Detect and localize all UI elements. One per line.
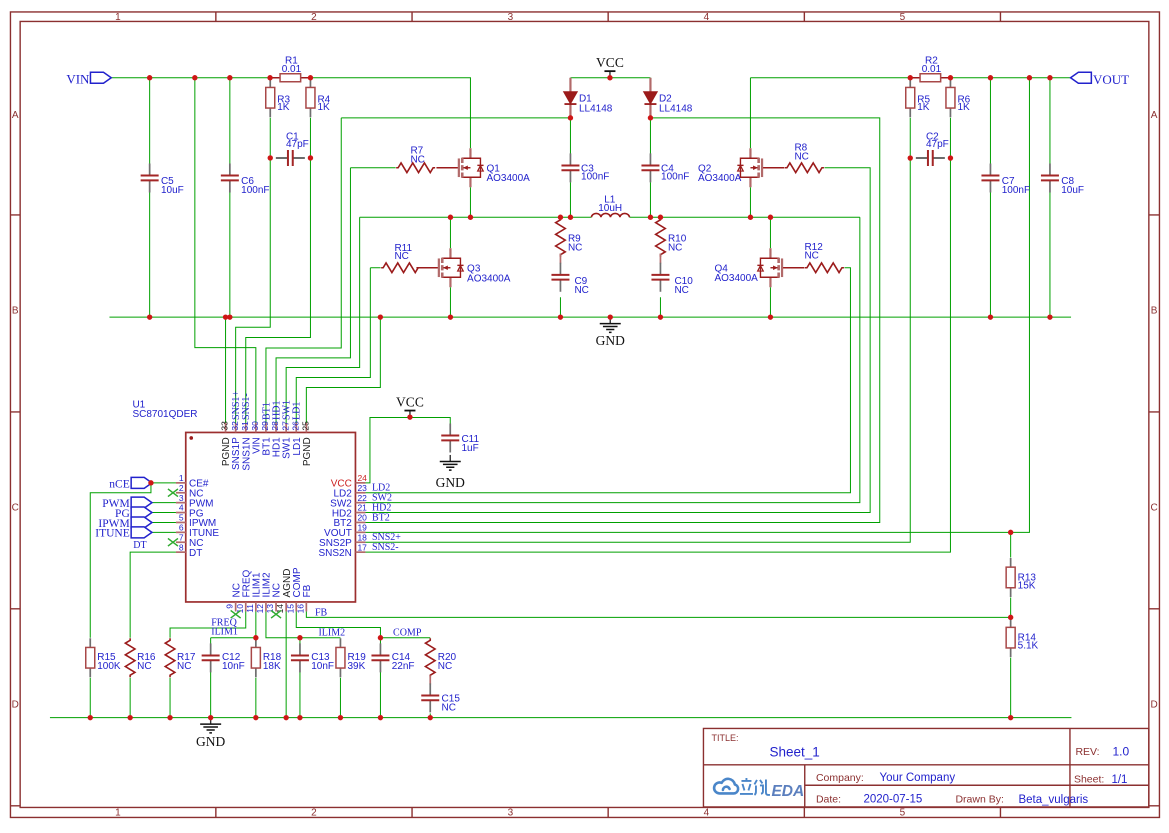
svg-text:nCE: nCE bbox=[109, 478, 129, 490]
svg-text:SC8701QDER: SC8701QDER bbox=[132, 409, 197, 420]
pin 22 SW2 bbox=[355, 502, 365, 504]
svg-text:REV:: REV: bbox=[1075, 746, 1099, 758]
svg-text:29: 29 bbox=[260, 421, 270, 431]
pin 1 CE# bbox=[176, 482, 186, 484]
transistor Q1 bbox=[436, 148, 483, 187]
junction bottom GND bus bbox=[208, 715, 213, 720]
capacitor C13 bbox=[291, 643, 309, 672]
capacitor C6 bbox=[221, 163, 239, 192]
transistor Q2 bbox=[737, 148, 784, 187]
pin 13 NC bbox=[275, 602, 277, 612]
pin 4 PG bbox=[176, 512, 186, 514]
resistor R15 bbox=[86, 638, 95, 677]
junction bottom GND bus bbox=[378, 715, 383, 720]
svg-text:GND: GND bbox=[436, 475, 465, 490]
svg-text:B: B bbox=[12, 305, 19, 316]
svg-text:10nF: 10nF bbox=[222, 661, 245, 672]
svg-text:1K: 1K bbox=[317, 102, 330, 113]
svg-text:1: 1 bbox=[179, 473, 184, 483]
title block bbox=[703, 728, 1148, 807]
svg-text:18K: 18K bbox=[263, 661, 281, 672]
svg-text:NC: NC bbox=[674, 285, 688, 296]
svg-text:EDA: EDA bbox=[771, 783, 804, 800]
svg-text:0.01: 0.01 bbox=[922, 64, 942, 75]
pin 23 LD2 bbox=[355, 492, 365, 494]
pin 10 FREQ bbox=[245, 602, 247, 612]
svg-text:12: 12 bbox=[255, 604, 265, 614]
junction VCC top bbox=[607, 75, 612, 80]
junction C1 bbox=[308, 155, 313, 160]
ground under C11 bbox=[440, 455, 461, 470]
svg-text:100nF: 100nF bbox=[581, 172, 609, 183]
junction VIN rail bbox=[308, 75, 313, 80]
svg-text:5: 5 bbox=[179, 513, 184, 523]
svg-text:4: 4 bbox=[704, 807, 710, 818]
junction middle GND bus bbox=[227, 314, 232, 319]
svg-text:1K: 1K bbox=[957, 102, 970, 113]
svg-text:GND: GND bbox=[196, 734, 225, 749]
capacitor C10 bbox=[651, 263, 669, 292]
svg-text:1.0: 1.0 bbox=[1112, 744, 1129, 758]
capacitor C15 bbox=[421, 683, 439, 712]
svg-text:5: 5 bbox=[900, 12, 906, 23]
junction D1 BT1 bbox=[568, 115, 573, 120]
resistor R20 bbox=[425, 638, 435, 677]
pin 17 SNS2N bbox=[355, 551, 365, 553]
svg-text:A: A bbox=[1151, 110, 1158, 121]
IC U1 SC8701QDER body bbox=[186, 432, 356, 602]
junction VIN rail bbox=[267, 75, 272, 80]
svg-text:20: 20 bbox=[357, 513, 367, 523]
svg-text:NC: NC bbox=[794, 152, 808, 163]
junction middle GND bus bbox=[768, 314, 773, 319]
capacitor C9 bbox=[551, 263, 569, 292]
pin 27 SW1 bbox=[285, 423, 287, 433]
svg-text:2: 2 bbox=[311, 807, 317, 818]
capacitor C4 bbox=[641, 153, 659, 182]
pin 21 HD2 bbox=[355, 512, 365, 514]
svg-text:3: 3 bbox=[179, 493, 184, 503]
junction VIN rail bbox=[147, 75, 152, 80]
junction bottom GND bus bbox=[1008, 715, 1013, 720]
capacitor C11 bbox=[441, 423, 459, 452]
junction SW node bbox=[468, 215, 473, 220]
junction SW node bbox=[448, 215, 453, 220]
junction C2 bbox=[908, 155, 913, 160]
resistor R10 bbox=[656, 218, 666, 257]
svg-text:10uF: 10uF bbox=[161, 185, 184, 196]
svg-text:5.1K: 5.1K bbox=[1018, 640, 1039, 651]
junction VOUT rail bbox=[988, 75, 993, 80]
svg-text:C: C bbox=[12, 502, 19, 513]
svg-text:DT: DT bbox=[133, 540, 146, 551]
svg-text:32: 32 bbox=[230, 421, 240, 431]
svg-text:SNS1-: SNS1- bbox=[241, 393, 252, 420]
capacitor C8 bbox=[1041, 163, 1059, 192]
svg-text:1K: 1K bbox=[917, 102, 930, 113]
junction middle GND bus bbox=[378, 314, 383, 319]
svg-text:VCC: VCC bbox=[396, 395, 424, 410]
pin 26 LD1 bbox=[295, 423, 297, 433]
capacitor C12 bbox=[202, 643, 220, 672]
pin 5 IPWM bbox=[176, 521, 186, 523]
svg-text:4: 4 bbox=[704, 12, 710, 23]
svg-text:30: 30 bbox=[250, 421, 260, 431]
resistor R12 bbox=[805, 263, 844, 273]
svg-text:NC: NC bbox=[394, 251, 408, 262]
pin 3 PWM bbox=[176, 502, 186, 504]
resistor R8 bbox=[785, 163, 824, 173]
svg-text:15: 15 bbox=[285, 604, 295, 614]
junction feedback divider bbox=[1008, 530, 1013, 535]
svg-text:ITUNE: ITUNE bbox=[95, 528, 130, 540]
port VIN bbox=[90, 72, 111, 83]
svg-text:17: 17 bbox=[357, 542, 367, 552]
svg-text:4: 4 bbox=[179, 503, 184, 513]
pin 11 ILIM1 bbox=[255, 602, 257, 612]
svg-text:C: C bbox=[1151, 502, 1158, 513]
svg-text:Beta_vulgaris: Beta_vulgaris bbox=[1018, 794, 1088, 806]
svg-text:VIN: VIN bbox=[66, 71, 90, 86]
svg-text:33: 33 bbox=[220, 421, 230, 431]
junction SW node bbox=[658, 215, 663, 220]
resistor R16 bbox=[125, 638, 135, 677]
resistor R13 bbox=[1006, 558, 1015, 597]
junction feedback divider bbox=[1008, 615, 1013, 620]
pin 29 BT1 bbox=[265, 423, 267, 433]
pin 8 DT bbox=[176, 551, 186, 553]
port PG bbox=[131, 507, 152, 518]
lead R20 to C15 bbox=[429, 675, 431, 684]
resistor R11 bbox=[381, 263, 420, 273]
junction C1 bbox=[268, 155, 273, 160]
svg-text:27: 27 bbox=[280, 421, 290, 431]
capacitor C14 bbox=[371, 643, 389, 672]
svg-text:Sheet_1: Sheet_1 bbox=[769, 744, 819, 759]
junction SW node bbox=[648, 215, 653, 220]
pin 30 VIN bbox=[255, 423, 257, 433]
junction middle GND bus bbox=[448, 314, 453, 319]
svg-text:B: B bbox=[1151, 305, 1158, 316]
svg-text:23: 23 bbox=[357, 483, 367, 493]
svg-text:GND: GND bbox=[596, 333, 625, 348]
svg-text:ILIM1: ILIM1 bbox=[211, 627, 238, 638]
svg-text:0.01: 0.01 bbox=[282, 64, 302, 75]
svg-text:Sheet:: Sheet: bbox=[1074, 773, 1104, 785]
junction bottom GND bus bbox=[88, 715, 93, 720]
svg-text:19: 19 bbox=[357, 523, 367, 533]
svg-text:AO3400A: AO3400A bbox=[698, 173, 742, 184]
svg-text:SNS2-: SNS2- bbox=[372, 542, 399, 553]
port IPWM bbox=[131, 517, 152, 528]
svg-text:AO3400A: AO3400A bbox=[486, 173, 530, 184]
no-connect pin2 bbox=[168, 489, 178, 497]
pin 28 HD1 bbox=[275, 423, 277, 433]
capacitor C3 bbox=[561, 153, 579, 182]
pin 2 NC bbox=[176, 492, 186, 494]
svg-text:2: 2 bbox=[179, 483, 184, 493]
svg-text:21: 21 bbox=[357, 503, 367, 513]
svg-text:COMP: COMP bbox=[393, 627, 422, 638]
port nCE bbox=[131, 477, 152, 488]
junction bottom GND bus bbox=[127, 715, 132, 720]
power VCC top bbox=[604, 71, 615, 78]
svg-text:3: 3 bbox=[508, 12, 514, 23]
svg-text:5: 5 bbox=[900, 807, 906, 818]
svg-text:1: 1 bbox=[115, 12, 121, 23]
svg-text:FB: FB bbox=[302, 584, 313, 597]
svg-text:100nF: 100nF bbox=[661, 172, 689, 183]
junction bottom GND bus bbox=[428, 715, 433, 720]
svg-text:26: 26 bbox=[290, 421, 300, 431]
svg-text:ILIM2: ILIM2 bbox=[318, 628, 345, 639]
svg-text:LD1: LD1 bbox=[292, 402, 303, 420]
svg-text:10nF: 10nF bbox=[311, 661, 334, 672]
svg-text:Date:: Date: bbox=[816, 793, 841, 805]
svg-text:NC: NC bbox=[574, 285, 588, 296]
svg-text:NC: NC bbox=[568, 243, 582, 254]
no-connect pin9 bbox=[231, 610, 241, 618]
svg-text:BT2: BT2 bbox=[372, 512, 390, 523]
resistor R14 bbox=[1006, 618, 1015, 657]
junction bottom GND bus bbox=[297, 715, 302, 720]
svg-text:1: 1 bbox=[115, 807, 121, 818]
svg-text:TITLE:: TITLE: bbox=[711, 733, 738, 743]
svg-text:Your Company: Your Company bbox=[879, 772, 955, 784]
pin 19 VOUT bbox=[355, 531, 365, 533]
port ITUNE bbox=[131, 527, 152, 538]
svg-text:22nF: 22nF bbox=[392, 661, 415, 672]
junction bottom GND bus bbox=[338, 715, 343, 720]
svg-text:9: 9 bbox=[225, 604, 235, 609]
pin 12 ILIM2 bbox=[265, 602, 267, 612]
junction VIN rail bbox=[192, 75, 197, 80]
junction VCC C11 bbox=[407, 414, 412, 419]
EasyEDA logo bbox=[714, 779, 738, 794]
no-connect pin7 bbox=[168, 538, 178, 546]
svg-text:FB: FB bbox=[315, 607, 328, 618]
svg-text:7: 7 bbox=[179, 532, 184, 542]
resistor R5 bbox=[906, 78, 915, 117]
pin 16 FB bbox=[305, 602, 307, 612]
pin 25 PGND bbox=[305, 423, 307, 433]
capacitor C2 bbox=[916, 150, 945, 166]
svg-text:PGND: PGND bbox=[302, 437, 313, 466]
svg-text:D: D bbox=[1151, 699, 1158, 710]
svg-text:AO3400A: AO3400A bbox=[467, 273, 511, 284]
pin 32 SNS1P bbox=[235, 423, 237, 433]
svg-text:47pF: 47pF bbox=[286, 139, 309, 150]
svg-text:8: 8 bbox=[179, 542, 184, 552]
svg-text:11: 11 bbox=[245, 604, 255, 613]
diode D1 bbox=[564, 78, 578, 118]
lead R9 to C9 bbox=[559, 253, 561, 263]
svg-text:31: 31 bbox=[240, 421, 250, 431]
junction bottom GND bus bbox=[253, 715, 258, 720]
junction bottom GND bus bbox=[283, 715, 288, 720]
diode D2 bbox=[644, 78, 658, 118]
svg-text:47pF: 47pF bbox=[926, 139, 949, 150]
junction SW node bbox=[558, 215, 563, 220]
pin 6 ITUNE bbox=[176, 531, 186, 533]
junction middle GND bus bbox=[658, 314, 663, 319]
junction ILIM/COMP bbox=[378, 635, 383, 640]
capacitor C7 bbox=[981, 163, 999, 192]
inductor L1 bbox=[591, 213, 629, 217]
pin 33 PGND bbox=[225, 423, 227, 433]
svg-text:NC: NC bbox=[438, 661, 452, 672]
resistor R9 bbox=[556, 218, 566, 257]
junction VOUT rail bbox=[1027, 75, 1032, 80]
svg-text:15K: 15K bbox=[1018, 580, 1036, 591]
resistor R2 bbox=[911, 74, 950, 82]
junction bottom GND bus bbox=[167, 715, 172, 720]
pin 24 VCC bbox=[355, 482, 365, 484]
resistor R1 bbox=[271, 74, 310, 82]
svg-text:22: 22 bbox=[357, 493, 367, 503]
svg-text:16: 16 bbox=[295, 604, 305, 614]
pin 20 BT2 bbox=[355, 521, 365, 523]
svg-text:LL4148: LL4148 bbox=[659, 104, 693, 115]
svg-text:VOUT: VOUT bbox=[1093, 72, 1129, 87]
junction SW node bbox=[768, 215, 773, 220]
svg-text:39K: 39K bbox=[347, 661, 365, 672]
capacitor C5 bbox=[141, 163, 159, 192]
junction ILIM/COMP bbox=[297, 635, 302, 640]
svg-text:100nF: 100nF bbox=[1002, 185, 1030, 196]
pin 14 AGND bbox=[285, 602, 287, 612]
junction SW node bbox=[568, 215, 573, 220]
junction ILIM/COMP bbox=[253, 635, 258, 640]
svg-text:NC: NC bbox=[410, 155, 424, 166]
svg-text:18: 18 bbox=[357, 532, 367, 542]
transistor Q3 bbox=[416, 248, 463, 287]
svg-text:Company:: Company: bbox=[816, 772, 864, 784]
svg-text:24: 24 bbox=[357, 473, 367, 483]
svg-text:1K: 1K bbox=[277, 102, 290, 113]
svg-text:3: 3 bbox=[508, 807, 514, 818]
port PWM bbox=[131, 497, 152, 508]
svg-text:LL4148: LL4148 bbox=[579, 104, 613, 115]
lead R10 to C10 bbox=[659, 253, 661, 263]
svg-text:100K: 100K bbox=[97, 661, 121, 672]
capacitor C1 bbox=[276, 150, 305, 166]
svg-text:28: 28 bbox=[270, 421, 280, 431]
pin 7 NC bbox=[176, 541, 186, 543]
pin 18 SNS2P bbox=[355, 541, 365, 543]
pin 9 NC bbox=[235, 602, 237, 612]
resistor R6 bbox=[946, 78, 955, 117]
power VCC C11 bbox=[404, 411, 415, 418]
svg-text:2020-07-15: 2020-07-15 bbox=[863, 793, 922, 805]
svg-text:10uH: 10uH bbox=[598, 203, 622, 214]
svg-text:25: 25 bbox=[301, 421, 311, 431]
svg-text:VCC: VCC bbox=[596, 55, 624, 70]
resistor R17 bbox=[165, 638, 175, 677]
junction VOUT rail bbox=[1047, 75, 1052, 80]
svg-text:NC: NC bbox=[668, 243, 682, 254]
svg-text:6: 6 bbox=[179, 523, 184, 533]
svg-text:1uF: 1uF bbox=[461, 443, 478, 454]
svg-text:Drawn By:: Drawn By: bbox=[955, 793, 1003, 805]
no-connect pin13 bbox=[271, 610, 281, 618]
resistor R18 bbox=[251, 638, 260, 677]
svg-text:NC: NC bbox=[442, 702, 456, 713]
junction nCE bbox=[148, 480, 153, 485]
junction middle GND bus bbox=[558, 314, 563, 319]
svg-text:SNS2N: SNS2N bbox=[318, 548, 351, 559]
junction C2 bbox=[948, 155, 953, 160]
resistor R4 bbox=[306, 78, 315, 117]
junction VIN rail bbox=[227, 75, 232, 80]
svg-text:NC: NC bbox=[804, 251, 818, 262]
resistor R3 bbox=[266, 78, 275, 117]
junction VOUT rail bbox=[908, 75, 913, 80]
resistor R19 bbox=[336, 638, 345, 677]
svg-text:A: A bbox=[12, 110, 19, 121]
svg-text:1/1: 1/1 bbox=[1111, 774, 1127, 786]
pin 15 COMP bbox=[295, 602, 297, 612]
svg-text:D: D bbox=[12, 699, 19, 710]
junction middle GND bus bbox=[223, 314, 228, 319]
svg-text:2: 2 bbox=[311, 12, 317, 23]
junction D2 BT2 bbox=[648, 115, 653, 120]
svg-text:AO3400A: AO3400A bbox=[714, 273, 758, 284]
svg-text:DT: DT bbox=[189, 548, 202, 559]
resistor R7 bbox=[396, 163, 435, 173]
svg-text:NC: NC bbox=[177, 661, 191, 672]
junction middle GND bus bbox=[1047, 314, 1052, 319]
junction ground middle bbox=[608, 314, 613, 319]
svg-text:NC: NC bbox=[137, 661, 151, 672]
ground middle bbox=[600, 317, 621, 332]
ground bottom bbox=[200, 718, 221, 733]
transistor Q4 bbox=[757, 248, 804, 287]
junction SW node bbox=[748, 215, 753, 220]
pin 31 SNS1N bbox=[245, 423, 247, 433]
port VOUT bbox=[1071, 72, 1092, 83]
junction middle GND bus bbox=[147, 314, 152, 319]
svg-text:100nF: 100nF bbox=[241, 185, 269, 196]
junction middle GND bus bbox=[988, 314, 993, 319]
svg-text:10uF: 10uF bbox=[1061, 185, 1084, 196]
junction VOUT rail bbox=[948, 75, 953, 80]
